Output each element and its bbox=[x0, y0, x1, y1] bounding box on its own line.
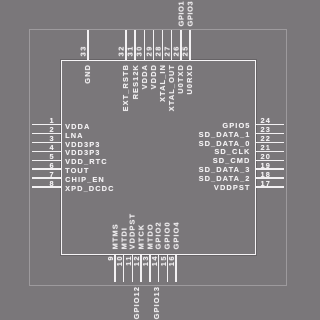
net label GPIO12 bbox=[133, 286, 140, 319]
wire pin 6 bbox=[32, 168, 62, 169]
pin number 14 bbox=[151, 255, 158, 266]
wire pin 32 bbox=[125, 30, 126, 61]
wire pin 13 bbox=[149, 255, 150, 282]
pin label LNA pin 2 bbox=[65, 132, 84, 139]
pin label GPIO4 pin 16 bbox=[173, 221, 180, 249]
pin number 27 bbox=[163, 45, 170, 56]
wire pin 10 bbox=[123, 255, 124, 282]
pin number 19 bbox=[261, 162, 271, 169]
pin number 29 bbox=[145, 45, 152, 56]
pin label VDD3P3 pin 4 bbox=[65, 149, 100, 156]
pin number 10 bbox=[116, 255, 123, 266]
pin label XTAL_IN pin 28 bbox=[159, 64, 166, 102]
wire pin 28 bbox=[162, 30, 163, 61]
pin number 16 bbox=[168, 255, 175, 266]
pin number 21 bbox=[261, 144, 271, 151]
wire pin 4 bbox=[32, 151, 62, 152]
pin number 26 bbox=[173, 45, 180, 56]
pin label XPD_DCDC pin 8 bbox=[65, 185, 114, 192]
pin number 20 bbox=[261, 153, 271, 160]
wire pin 18 bbox=[256, 177, 284, 178]
pin label RES12K pin 31 bbox=[132, 64, 139, 99]
wire pin 25 bbox=[189, 30, 190, 61]
pin label TOUT pin 6 bbox=[65, 167, 89, 174]
pin number 32 bbox=[118, 45, 125, 56]
pin number 13 bbox=[142, 255, 149, 266]
pin label U0TXD pin 26 bbox=[177, 64, 184, 94]
wire pin 9 bbox=[114, 255, 115, 282]
pin number 11 bbox=[125, 255, 132, 266]
IC U1 ESP8266EX chip body bbox=[61, 60, 257, 255]
wire pin 3 bbox=[32, 142, 62, 143]
pin label CHIP_EN pin 7 bbox=[65, 176, 105, 183]
wire pin 1 bbox=[32, 124, 62, 125]
pin label SD_CMD pin 20 bbox=[151, 157, 251, 164]
pin label SD_DATA_0 pin 22 bbox=[151, 140, 251, 147]
wire pin 20 bbox=[256, 160, 284, 161]
pin label GPIO0 pin 15 bbox=[164, 221, 171, 249]
pin label MTDO pin 13 bbox=[146, 223, 153, 249]
wire pin 29 bbox=[153, 30, 154, 61]
frame border bbox=[29, 29, 287, 286]
wire pin 26 bbox=[180, 30, 181, 61]
wire pin 12 bbox=[140, 255, 141, 282]
pin label GPIO2 pin 14 bbox=[155, 221, 162, 249]
pin number 4 bbox=[36, 144, 55, 151]
wire pin 7 bbox=[32, 177, 62, 178]
wire pin 11 bbox=[132, 255, 133, 282]
wire pin 22 bbox=[256, 142, 284, 143]
pin number 17 bbox=[261, 180, 271, 187]
wire pin 14 bbox=[158, 255, 159, 282]
pin number 1 bbox=[36, 117, 55, 124]
pin number 28 bbox=[154, 45, 161, 56]
pin number 31 bbox=[127, 45, 134, 56]
pin number 7 bbox=[36, 171, 55, 178]
pin number 15 bbox=[160, 255, 167, 266]
wire pin 15 bbox=[167, 255, 168, 282]
pin label SD_DATA_2 pin 18 bbox=[151, 175, 251, 182]
net label GPIO3 bbox=[186, 1, 193, 27]
wire pin 2 bbox=[32, 133, 62, 134]
pin number 3 bbox=[36, 135, 55, 142]
pin label MTCK pin 12 bbox=[138, 224, 145, 250]
pin label GND pin 33 bbox=[84, 64, 91, 84]
pin label SD_DATA_1 pin 23 bbox=[151, 131, 251, 138]
pin number 24 bbox=[261, 117, 271, 124]
pin number 8 bbox=[36, 180, 55, 187]
wire pin 31 bbox=[134, 30, 135, 61]
wire pin 17 bbox=[256, 186, 284, 187]
pin label SD_CLK pin 21 bbox=[151, 148, 251, 155]
wire pin 27 bbox=[171, 30, 172, 61]
pin number 30 bbox=[136, 45, 143, 56]
pin number 25 bbox=[182, 45, 189, 56]
pin label VDD_RTC pin 5 bbox=[65, 158, 108, 165]
pin label EXT_RSTB pin 32 bbox=[122, 64, 129, 111]
pin label U0RXD pin 25 bbox=[186, 64, 193, 95]
pin label MTMS pin 9 bbox=[111, 223, 118, 249]
pin number 33 bbox=[80, 45, 87, 56]
pin label VDDPST pin 17 bbox=[151, 184, 251, 191]
pin label XTAL_OUT pin 27 bbox=[168, 64, 175, 111]
pin number 2 bbox=[36, 126, 55, 133]
wire pin 30 bbox=[144, 30, 145, 61]
pin label SD_DATA_3 pin 19 bbox=[151, 166, 251, 173]
pin label VDDD pin 29 bbox=[150, 64, 157, 89]
wire pin 16 bbox=[175, 255, 176, 282]
wire pin 24 bbox=[256, 124, 284, 125]
pin number 12 bbox=[133, 255, 140, 266]
pin number 9 bbox=[107, 255, 114, 261]
wire pin 8 bbox=[32, 186, 62, 187]
pin number 18 bbox=[261, 171, 271, 178]
pin number 22 bbox=[261, 135, 271, 142]
wire pin 19 bbox=[256, 168, 284, 169]
pin number 6 bbox=[36, 162, 55, 169]
wire pin 33 bbox=[87, 30, 88, 61]
pin label VDDA pin 30 bbox=[141, 64, 148, 89]
pin label VDD3P3 pin 3 bbox=[65, 141, 100, 148]
pin label GPIO5 pin 24 bbox=[151, 122, 251, 129]
pin number 23 bbox=[261, 126, 271, 133]
pin label VDDA pin 1 bbox=[65, 123, 90, 130]
net label GPIO13 bbox=[153, 286, 160, 319]
wire pin 5 bbox=[32, 160, 62, 161]
pin label VDDPST pin 11 bbox=[129, 213, 136, 250]
wire pin 23 bbox=[256, 133, 284, 134]
net label GPIO1 bbox=[177, 1, 184, 27]
pin label MTDI pin 10 bbox=[120, 227, 127, 249]
wire pin 21 bbox=[256, 151, 284, 152]
pin number 5 bbox=[36, 153, 55, 160]
